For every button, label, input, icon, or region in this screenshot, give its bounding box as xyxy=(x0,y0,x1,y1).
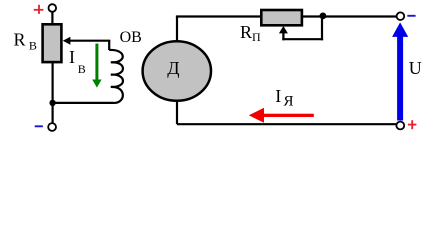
svg-text:В: В xyxy=(78,62,86,76)
svg-text:П: П xyxy=(252,30,261,44)
svg-text:I: I xyxy=(69,47,75,67)
svg-text:Д: Д xyxy=(167,58,179,78)
svg-text:В: В xyxy=(29,39,37,53)
svg-text:Я: Я xyxy=(284,93,294,109)
svg-text:U: U xyxy=(409,58,422,78)
svg-text:I: I xyxy=(275,86,281,106)
svg-text:R: R xyxy=(14,29,26,49)
svg-text:R: R xyxy=(240,22,252,42)
svg-text:ОВ: ОВ xyxy=(120,29,142,46)
